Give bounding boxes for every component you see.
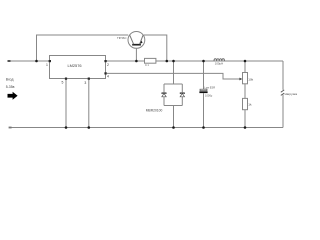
node junction pin3/ground: [88, 126, 91, 129]
connector X1: [281, 90, 284, 96]
svg-text:100μH: 100μH: [215, 62, 223, 66]
label C1 value 1000u: [205, 94, 213, 98]
diode D1b schottky: [180, 93, 184, 97]
transistor Q1: [128, 32, 145, 49]
potentiometer R2: [243, 73, 248, 84]
node ground terminal: [9, 127, 12, 129]
label U1 value LM2576: [67, 63, 81, 68]
wire feedback pin4 to R2: [107, 73, 241, 79]
svg-text:0.1: 0.1: [145, 63, 149, 67]
node junction base/rail: [135, 60, 138, 63]
wire Q1 emitter: [144, 35, 167, 61]
wire ground rail: [9, 127, 283, 129]
node junction pot/rail: [244, 60, 247, 63]
label R3 value 1k: [248, 103, 252, 107]
capacitor C1: [199, 89, 207, 93]
svg-text:MBR20100: MBR20100: [146, 108, 163, 112]
wire diode stem to ground: [173, 106, 175, 128]
wire diode bottom bar: [164, 105, 182, 107]
label Вход: [6, 78, 14, 82]
node junction pin5/ground: [65, 126, 68, 129]
svg-text:4: 4: [107, 75, 109, 79]
node junction input/Q1: [35, 60, 38, 63]
label Нагрузка: [285, 92, 298, 96]
inductor L1: [214, 59, 224, 61]
svg-text:LM2576: LM2576: [67, 63, 81, 68]
resistor R3: [243, 98, 248, 109]
node wiper arrow: [239, 78, 242, 81]
node input terminal: [8, 60, 11, 62]
wire R3 to ground: [244, 110, 246, 128]
wire pin5 to ground: [65, 80, 67, 128]
wire diode top bar: [164, 83, 182, 85]
wire diode left leg: [163, 84, 165, 106]
node junction cap/rail: [202, 60, 205, 63]
svg-text:2: 2: [107, 63, 109, 67]
node junction R3/ground: [244, 126, 247, 129]
svg-text:Нагрузка: Нагрузка: [285, 92, 298, 96]
wire capacitor branch top: [203, 61, 205, 89]
wire diode right leg: [181, 84, 183, 106]
svg-text:TIP36C: TIP36C: [117, 36, 126, 40]
label R1 value 0.1: [145, 63, 149, 67]
wire feedback branch to Q1: [37, 35, 129, 61]
svg-text:3: 3: [84, 81, 86, 85]
svg-text:1k: 1k: [248, 103, 252, 107]
wire pin3 to ground: [88, 80, 90, 128]
label Q1 TIP36C: [117, 36, 126, 40]
svg-text:Low ESR: Low ESR: [204, 85, 215, 89]
pin 1: [46, 60, 51, 67]
label R2 value 10k: [248, 77, 253, 81]
svg-text:1000μ: 1000μ: [205, 94, 213, 98]
svg-text:1: 1: [46, 63, 48, 67]
svg-text:5-35в: 5-35в: [6, 85, 15, 89]
pin 2: [104, 60, 109, 67]
svg-text:5: 5: [62, 80, 64, 84]
node junction cap/ground: [202, 126, 205, 129]
resistor R1: [145, 58, 156, 63]
label 5-35в: [6, 85, 15, 89]
wire Q1 base: [135, 48, 137, 61]
pin 5: [62, 78, 68, 85]
wire output rail pin2: [107, 60, 284, 62]
wire capacitor branch bottom: [203, 93, 205, 127]
label L1 value 100uH: [215, 62, 223, 66]
diode D1a schottky: [162, 93, 166, 97]
node junction emitter/rail: [166, 60, 169, 63]
wire diode branch stem: [173, 61, 175, 84]
op-amp U1 LM2576 body: [50, 56, 106, 79]
wire output right vertical: [282, 61, 284, 128]
node junction diode/ground: [172, 126, 175, 129]
wire pot branch top: [244, 61, 246, 73]
wire pot to R3: [244, 84, 246, 99]
pin 3: [84, 78, 90, 86]
pin 4: [104, 72, 109, 78]
wire input rail: [8, 60, 50, 62]
svg-text:10k: 10k: [248, 77, 253, 81]
svg-text:Вход: Вход: [6, 78, 14, 82]
label D1 MBR20100: [146, 108, 163, 112]
input arrow: [8, 92, 18, 100]
node junction diode/rail: [172, 60, 175, 63]
label C1 Low ESR: [204, 85, 215, 89]
